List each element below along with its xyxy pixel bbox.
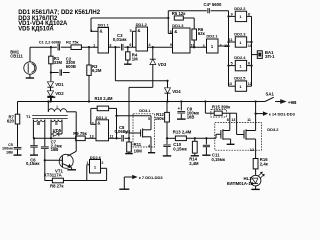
svg-text:6,2М: 6,2М — [92, 68, 102, 73]
svg-text:8: 8 — [248, 12, 250, 16]
svg-text:С4* 5600: С4* 5600 — [204, 2, 222, 7]
svg-text:4: 4 — [220, 43, 222, 47]
svg-text:&: & — [100, 28, 103, 33]
svg-text:600В: 600В — [66, 64, 76, 69]
svg-text:R15 390к: R15 390к — [212, 105, 231, 110]
svg-text:III: III — [37, 121, 41, 126]
svg-text:2: 2 — [90, 29, 92, 33]
svg-text:DD3.2: DD3.2 — [267, 127, 279, 132]
svg-text:2,4к: 2,4к — [260, 162, 269, 167]
svg-text:4: 4 — [149, 43, 151, 47]
svg-text:9: 9 — [170, 43, 172, 47]
svg-text:620: 620 — [7, 118, 15, 123]
svg-text:DD2.2: DD2.2 — [234, 6, 246, 11]
svg-text:3: 3 — [125, 131, 127, 135]
svg-text:12: 12 — [248, 82, 252, 86]
svg-text:Т1: Т1 — [26, 114, 31, 119]
svg-text:&: & — [174, 29, 177, 34]
svg-text:11: 11 — [229, 38, 233, 42]
svg-text:10М: 10М — [134, 149, 143, 154]
svg-text:I: I — [57, 104, 58, 109]
svg-text:11: 11 — [247, 118, 251, 122]
svg-text:5: 5 — [231, 62, 233, 66]
svg-text:0,01мк: 0,01мк — [113, 37, 127, 42]
svg-text:10: 10 — [248, 44, 252, 48]
svg-text:2,4М: 2,4М — [189, 161, 199, 166]
svg-text:9: 9 — [231, 12, 233, 16]
svg-text:5: 5 — [148, 117, 150, 121]
svg-text:DD1.2: DD1.2 — [136, 22, 148, 27]
svg-text:16В: 16В — [187, 115, 195, 120]
svg-text:II: II — [55, 121, 57, 126]
svg-text:DD2.6: DD2.6 — [90, 155, 102, 160]
svg-text:6: 6 — [129, 43, 131, 47]
svg-text:R2 75к: R2 75к — [66, 39, 79, 44]
svg-text:0,15мк: 0,15мк — [212, 157, 226, 162]
svg-text:13: 13 — [231, 118, 235, 122]
svg-text:VD4: VD4 — [172, 89, 181, 94]
svg-text:0,15мк: 0,15мк — [26, 161, 40, 166]
svg-text:к 7 DD1-DD3: к 7 DD1-DD3 — [139, 175, 164, 180]
svg-text:R9 75к: R9 75к — [73, 131, 87, 136]
svg-text:0,15мк: 0,15мк — [173, 146, 187, 151]
svg-text:12: 12 — [250, 148, 254, 152]
svg-text:R13 2,4М: R13 2,4М — [173, 130, 192, 135]
svg-text:DD1.1: DD1.1 — [98, 23, 110, 28]
svg-text:КИПМ01А-1К: КИПМ01А-1К — [227, 181, 254, 186]
svg-text:8: 8 — [170, 30, 172, 34]
svg-text:R11: R11 — [134, 142, 142, 147]
svg-text:1М: 1М — [132, 57, 138, 62]
svg-text:&: & — [137, 28, 140, 33]
svg-text:1: 1 — [93, 44, 95, 48]
svg-text:13: 13 — [228, 82, 232, 86]
svg-text:R5 12к: R5 12к — [172, 11, 186, 16]
svg-text:С1 2,2 600В: С1 2,2 600В — [39, 39, 61, 44]
svg-text:8: 8 — [227, 118, 229, 122]
svg-text:16В: 16В — [6, 150, 13, 154]
svg-text:+9В: +9В — [288, 100, 297, 105]
svg-text:DD2.1: DD2.1 — [206, 33, 218, 38]
svg-text:16В: 16В — [51, 147, 59, 152]
svg-text:DD1.4: DD1.4 — [96, 115, 108, 120]
svg-text:2: 2 — [101, 161, 103, 165]
svg-text:VD3: VD3 — [158, 62, 167, 67]
svg-text:33М: 33М — [54, 60, 63, 65]
svg-text:R8 27к: R8 27к — [50, 184, 64, 189]
svg-text:&: & — [97, 121, 100, 126]
svg-text:VD5 КД510А: VD5 КД510А — [18, 27, 54, 33]
svg-text:СВ111: СВ111 — [10, 54, 23, 59]
svg-text:150к: 150к — [155, 116, 165, 121]
svg-text:SA1: SA1 — [266, 91, 275, 96]
svg-text:КТ3117А: КТ3117А — [44, 173, 62, 178]
svg-text:VD1: VD1 — [55, 82, 64, 87]
svg-text:6: 6 — [248, 62, 250, 66]
svg-text:DD2.5: DD2.5 — [234, 76, 246, 81]
svg-text:5: 5 — [130, 29, 132, 33]
svg-text:VD2: VD2 — [55, 91, 64, 96]
svg-text:R10 2,4М: R10 2,4М — [95, 96, 114, 101]
svg-text:DD1.3: DD1.3 — [172, 23, 184, 28]
svg-text:ЗП-1: ЗП-1 — [265, 54, 275, 59]
svg-text:DD3.1: DD3.1 — [139, 108, 151, 113]
svg-text:62к: 62к — [198, 31, 206, 36]
svg-text:3: 3 — [203, 44, 205, 48]
svg-text:к 14 DD1-DD3: к 14 DD1-DD3 — [269, 111, 296, 116]
svg-text:DD2.4: DD2.4 — [234, 55, 246, 60]
svg-text:4: 4 — [148, 144, 150, 148]
svg-text:DD2.3: DD2.3 — [234, 32, 246, 37]
